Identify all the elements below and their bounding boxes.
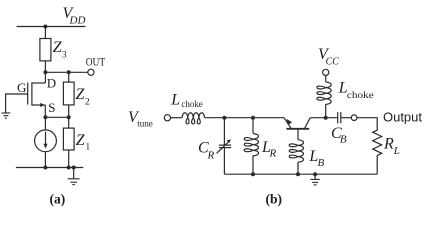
junction tank rail / CR: [222, 116, 226, 120]
wire VDD to Z3: [44, 27, 46, 39]
transistor M1 gate bar: [27, 83, 29, 105]
svg-text:3: 3: [62, 51, 67, 61]
svg-text:S: S: [48, 100, 55, 115]
source arrow: [40, 103, 45, 107]
wire OUT row: [45, 71, 87, 73]
wire choke to collector node: [325, 104, 327, 118]
top rail (b): [205, 117, 284, 119]
wire source row: [45, 116, 68, 118]
node collector / choke / CB: [324, 116, 328, 120]
current source I1: [35, 130, 57, 152]
svg-text:R: R: [269, 148, 277, 160]
svg-text:CC: CC: [326, 56, 340, 68]
resistor Z2: [63, 82, 74, 105]
capacitor CB: [337, 112, 339, 123]
OUT terminal: [88, 69, 94, 75]
junction rail / Z1: [67, 166, 71, 170]
svg-text:L: L: [393, 145, 400, 157]
wire collector to node: [310, 117, 337, 119]
transistor M1 channel bar: [31, 82, 33, 105]
transistor M1 source: [32, 104, 45, 106]
Vtune terminal: [164, 115, 170, 121]
wire gate: [6, 94, 28, 113]
junction rail / ground a: [72, 166, 76, 170]
svg-text:(a): (a): [50, 192, 66, 207]
wire Z2 to source row: [68, 105, 70, 117]
inductor LR: [244, 134, 258, 156]
wire CR branch: [223, 118, 225, 145]
inductor Lchoke (input): [182, 113, 204, 124]
resistor Z1: [63, 128, 74, 150]
svg-text:R: R: [383, 136, 394, 153]
svg-text:2: 2: [85, 97, 90, 107]
wire base down: [297, 129, 299, 140]
transistor M1 drain: [32, 82, 45, 84]
junction bottom rail / LB: [296, 172, 300, 176]
wire LR branch top: [252, 118, 254, 133]
svg-text:choke: choke: [347, 91, 374, 101]
svg-text:1: 1: [86, 143, 91, 153]
wire source row to Z1: [68, 117, 70, 128]
bottom rail (a): [16, 167, 83, 169]
junction source row / Z2-Z1: [67, 115, 71, 119]
emitter lead: [284, 117, 292, 128]
junction bottom rail / LR: [251, 172, 255, 176]
ground (b): [314, 174, 316, 179]
wire Z1 to rail: [68, 150, 70, 168]
svg-text:B: B: [318, 157, 325, 169]
capacitor CR (varactor): [219, 144, 231, 146]
wire current source to rail: [44, 152, 46, 168]
svg-text:L: L: [170, 92, 180, 109]
svg-text:DD: DD: [69, 15, 86, 27]
wire terminal to corner: [357, 118, 377, 131]
wire source row to current source: [44, 117, 46, 130]
svg-text:OUT: OUT: [86, 54, 106, 68]
svg-text:choke: choke: [181, 100, 202, 110]
wire source down: [44, 105, 46, 117]
svg-text:B: B: [340, 134, 347, 146]
wire LR to rail: [252, 155, 254, 174]
inductor Lchoke (VCC): [317, 82, 331, 104]
svg-text:Z: Z: [76, 86, 86, 103]
wire Z3 to drain node: [44, 61, 46, 83]
resistor RL zigzag: [373, 130, 382, 155]
output terminal circle: [351, 115, 357, 121]
wire terminal to choke: [171, 117, 183, 119]
VDD rail: [17, 26, 86, 28]
svg-text:R: R: [207, 149, 215, 161]
junction OUT row / Z2: [67, 70, 71, 74]
svg-text:Z: Z: [76, 132, 86, 149]
junction drain node / OUT row: [43, 70, 47, 74]
svg-text:Output: Output: [383, 110, 423, 124]
junction source node: [43, 115, 47, 119]
wire OUT row to Z2: [68, 72, 70, 82]
collector lead: [304, 118, 310, 129]
junction VDD rail / Z3: [43, 25, 47, 29]
transistor Q1 base bar: [286, 128, 309, 130]
VCC terminal: [323, 69, 329, 75]
wire RL to rail: [376, 155, 378, 174]
resistor Z3: [40, 39, 51, 61]
svg-text:G: G: [17, 80, 26, 95]
wire LB to rail: [297, 162, 299, 174]
junction bottom rail / ground b: [313, 172, 317, 176]
ground (a): [73, 168, 75, 179]
wire CB to output terminal: [341, 117, 351, 119]
wire VCC to choke: [325, 76, 327, 82]
svg-text:(b): (b): [266, 192, 283, 207]
svg-text:D: D: [47, 76, 56, 91]
svg-text:tune: tune: [137, 120, 153, 130]
bottom rail (b): [224, 173, 377, 175]
ground (gate): [2, 113, 11, 118]
inductor LB: [289, 140, 303, 162]
junction tank rail / LR: [251, 116, 255, 120]
junction rail / current source: [43, 166, 47, 170]
